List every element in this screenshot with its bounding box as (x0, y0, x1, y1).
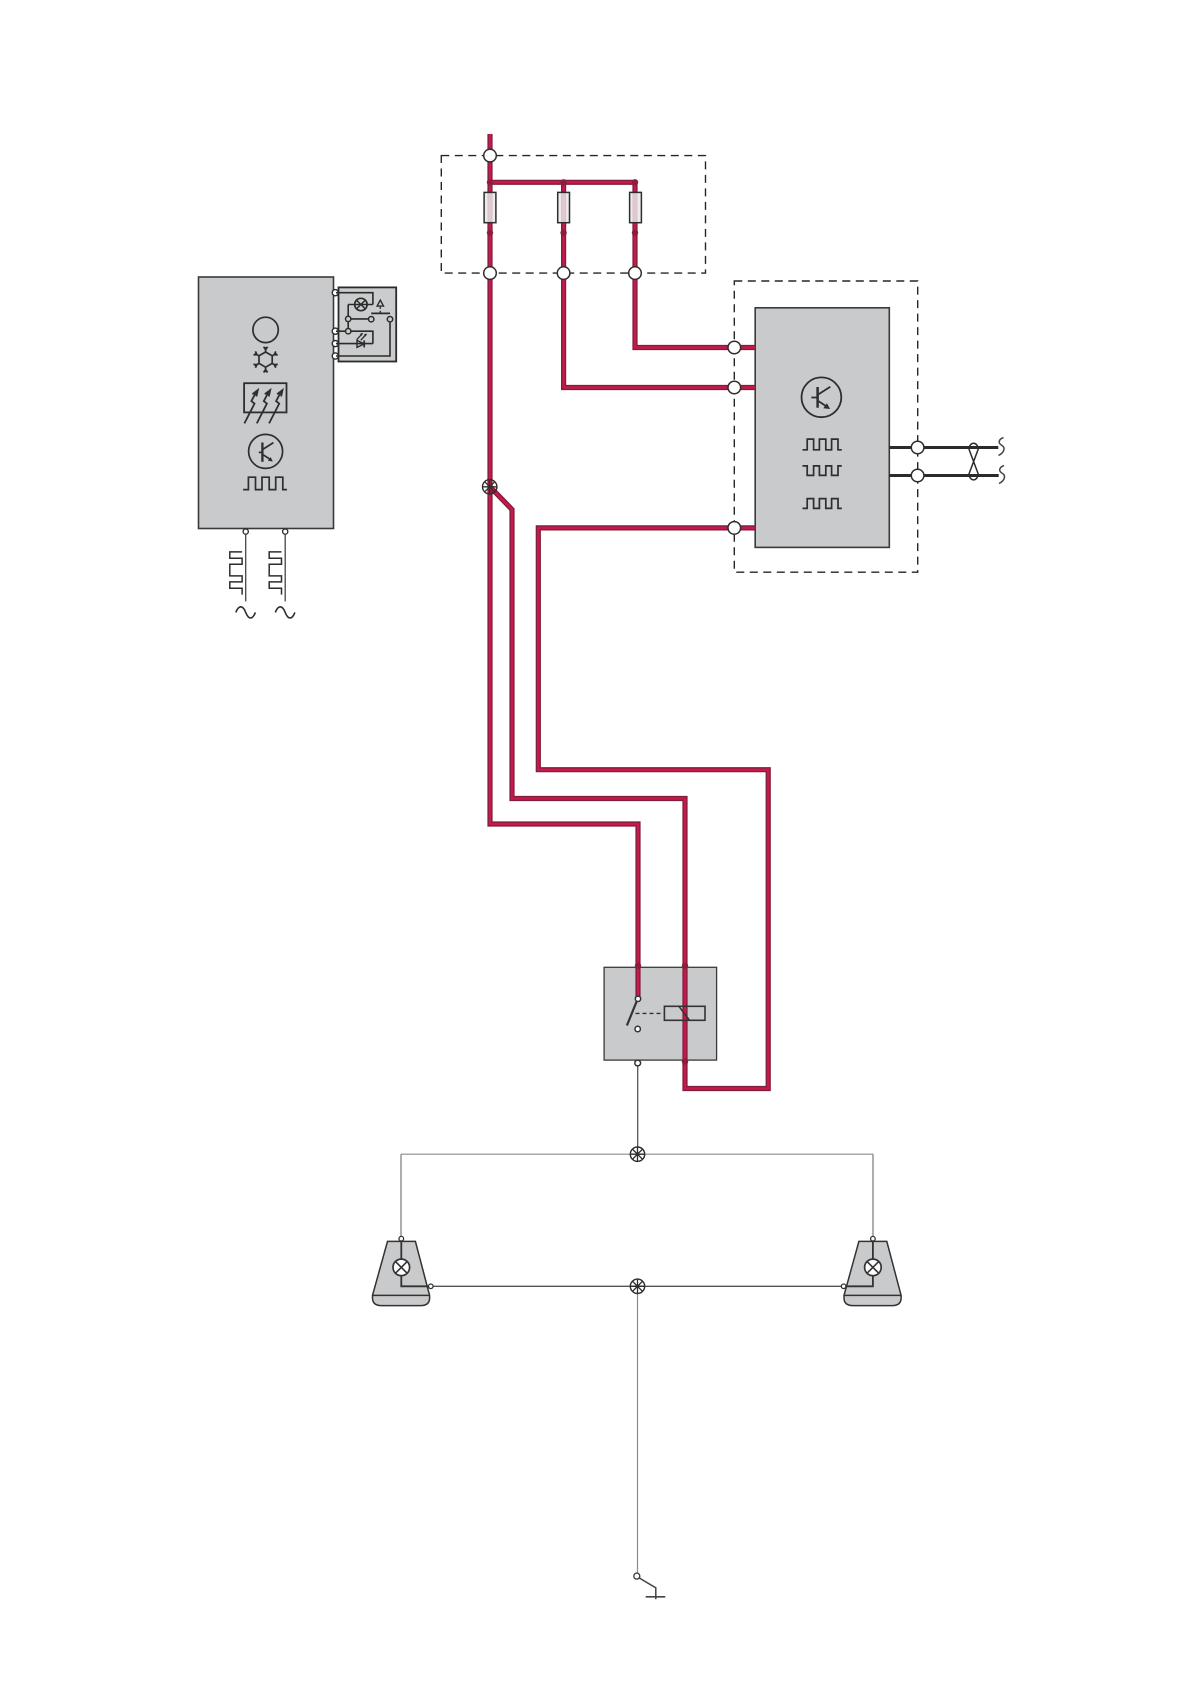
ground switch bar (646, 1596, 666, 1598)
relay K1 box (604, 967, 717, 1060)
wire battery feed through fuse F1 to relay switch (490, 134, 638, 968)
splice junction C (630, 1279, 644, 1293)
icon heated seat in U1 (244, 383, 286, 423)
wire fuse F3 to module U2 pin 1 (635, 182, 755, 347)
connector pin 1 of module U2 (728, 341, 741, 354)
connector pin 5 of module U2 (911, 469, 924, 482)
wire to ground switch (637, 1294, 639, 1573)
actuator triangle in S1 (377, 300, 383, 306)
wire fuse bus (490, 180, 635, 185)
pins between U1 and S1 (332, 290, 338, 360)
actuator dashes in S1 (379, 307, 381, 313)
icon square wave in U1 (243, 477, 287, 489)
relay K1 output pin (635, 1060, 641, 1066)
lamp E1 housing (373, 1236, 434, 1305)
switch bar in S1 (371, 312, 390, 314)
icon transistor in U1 (249, 434, 283, 468)
junction dot relay switch pin (635, 963, 641, 969)
junction dot fuse bus middle (560, 179, 566, 185)
junction dot relay coil pin bottom (682, 1058, 688, 1064)
wire break squiggle top (999, 438, 1005, 456)
junction dot below fuse F1 (487, 230, 493, 236)
connector C3 (557, 267, 570, 280)
wire U1 lower pin 1 (245, 534, 247, 601)
wire lamp return bus (433, 1285, 842, 1287)
fuse box dashed boundary (441, 156, 705, 274)
relay K1 dashed link (636, 1012, 664, 1014)
connector pin 4 of module U2 (911, 441, 924, 454)
splice junction A (483, 480, 497, 494)
icon square wave 1 in U2 (803, 439, 842, 450)
relay K1 coil (664, 1006, 705, 1020)
junction dot below fuse F2 (560, 230, 566, 236)
wire through relay coil (682, 965, 687, 1062)
junction dot fuse bus right (632, 179, 638, 185)
seat heater module U2 box (755, 308, 889, 548)
fuse F1 (484, 192, 496, 222)
relay K1 switch contact bottom (635, 1026, 640, 1031)
icon square wave 3 in U2 (803, 499, 842, 509)
wire splice to relay coil (490, 487, 685, 968)
sine symbol left (236, 607, 256, 618)
pins under U1 (243, 529, 288, 534)
relay K1 switch contact top (635, 996, 640, 1001)
LED diode in S1 (357, 334, 366, 348)
wire fuse F2 to module U2 pin 2 (564, 182, 756, 387)
wire U1 lower pin 2 (284, 534, 286, 601)
wire twisted pair black (889, 448, 998, 476)
ground switch contact (634, 1573, 640, 1579)
wire to left lamp (400, 1154, 402, 1236)
fuse F3 (630, 192, 642, 222)
switch module S1 box (339, 287, 397, 361)
fuse F2 (558, 192, 570, 222)
connector C4 (629, 267, 642, 280)
icon square wave 2 in U2 (803, 466, 842, 476)
connector C1 at fuse box top (484, 149, 497, 162)
junction dot fuse bus left (487, 179, 493, 185)
wire break squiggle bottom (999, 466, 1005, 484)
wire relay output (637, 1063, 639, 1147)
switch module S1 internal circuit (336, 293, 390, 356)
icon blower knob circle in U1 (253, 317, 278, 342)
pulse train symbol right (269, 552, 281, 595)
icon snowflake in U1 (253, 347, 277, 373)
wire module U2 pin 3 to relay coil return (538, 528, 768, 1089)
junction dot below fuse F3 (632, 230, 638, 236)
ground switch blade (639, 1578, 656, 1599)
pulse train symbol left (230, 552, 242, 595)
junction dot relay coil pin top (682, 963, 688, 969)
relay K1 blade (627, 1001, 637, 1025)
connector pin 2 of module U2 (728, 381, 741, 394)
climate control unit U1 box (199, 277, 334, 529)
connector pin 3 of module U2 (728, 522, 741, 535)
wire relay switch input stub (635, 965, 640, 997)
control module dashed boundary (734, 281, 917, 572)
wire lamp feed bus (401, 1153, 873, 1155)
sine symbol right (275, 607, 295, 618)
lamp E2 housing (841, 1236, 901, 1305)
twisted pair twist symbol (969, 443, 978, 480)
icon transistor in U2 (802, 377, 842, 417)
wire to right lamp (872, 1154, 874, 1236)
connector C2 (484, 267, 497, 280)
splice junction B (630, 1147, 644, 1161)
switch contacts in S1 (346, 316, 393, 334)
